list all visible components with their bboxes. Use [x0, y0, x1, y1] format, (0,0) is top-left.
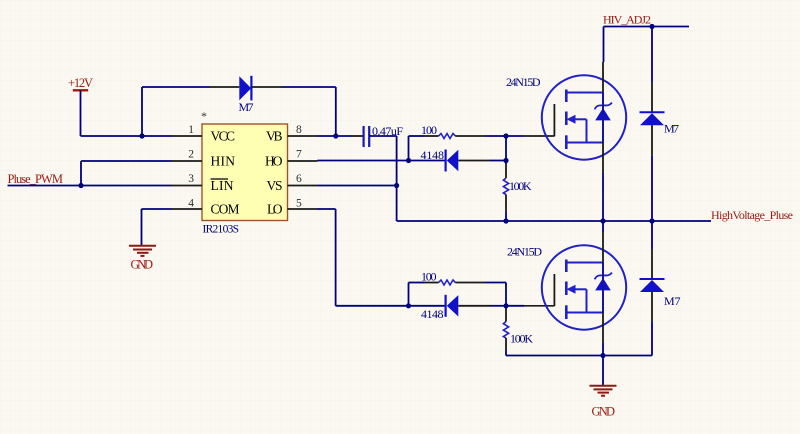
svg-text:Pluse_PWM: Pluse_PWM	[8, 172, 64, 186]
wire 100K to rail	[505, 195, 507, 213]
wire corner down bottom	[505, 283, 507, 306]
pin 1 VCC	[172, 124, 235, 144]
wire M7 right bottom upper	[651, 221, 653, 249]
node junction gate network bottom	[406, 303, 411, 308]
resistor R 100K top	[503, 178, 531, 195]
diode M7 top	[239, 76, 254, 114]
node junction 4148 bottom	[503, 303, 508, 308]
svg-text:GND: GND	[592, 404, 616, 418]
node junction VCC/M7 branch	[139, 133, 144, 138]
resistor R 100K bottom	[503, 322, 533, 346]
pin 5 LO	[267, 198, 318, 217]
svg-text:M7: M7	[239, 100, 254, 114]
pin drain Q2	[602, 232, 604, 263]
power port +12V	[68, 76, 93, 90]
svg-text:100: 100	[421, 270, 437, 284]
svg-text:+12V: +12V	[68, 76, 93, 90]
wire VB to cap	[318, 135, 353, 137]
svg-text:HighVoltage_Pluse: HighVoltage_Pluse	[711, 208, 793, 222]
wire HIN row	[81, 160, 172, 162]
svg-text:VCC: VCC	[211, 129, 236, 144]
svg-text:LO: LO	[267, 202, 283, 217]
wire M7 top right	[251, 86, 281, 88]
wire vertical to 100K bottom	[505, 306, 507, 309]
wire cap right	[369, 135, 396, 137]
node junction bottom rail	[600, 353, 605, 358]
pin 7 HO	[265, 149, 318, 169]
svg-text:3: 3	[188, 173, 194, 185]
node junction VS	[394, 183, 399, 188]
wire LIN row	[8, 185, 173, 187]
svg-text:M7: M7	[664, 121, 679, 135]
svg-text:VS: VS	[267, 178, 283, 193]
svg-text:M7: M7	[664, 294, 681, 308]
node junction HIN branch	[78, 183, 83, 188]
wire COM row	[142, 208, 173, 210]
svg-text:24N15D: 24N15D	[506, 75, 541, 89]
node junction gate top right	[503, 133, 508, 138]
svg-text:5: 5	[296, 198, 302, 210]
wire LO down	[335, 209, 337, 306]
wire HO row	[318, 160, 409, 162]
wire rail to Q2 drain	[602, 221, 604, 232]
svg-text:100K: 100K	[510, 332, 533, 346]
svg-text:*: *	[201, 109, 207, 123]
wire up to resistor branch	[408, 136, 410, 161]
node junction HIV/M7	[649, 24, 654, 29]
svg-text:8: 8	[296, 124, 302, 136]
svg-text:4148: 4148	[421, 307, 444, 321]
pin 6 VS	[267, 173, 318, 193]
svg-text:HIN: HIN	[211, 154, 236, 169]
op-amp U1 IR2103S body	[201, 109, 288, 236]
wire 100K bottom to rail	[505, 338, 507, 350]
wire HIN branch up	[80, 161, 82, 186]
pin 4 COM	[172, 198, 240, 217]
node junction gate network top	[406, 158, 411, 163]
wire Q1 source to rail	[602, 173, 604, 221]
svg-text:24N15D: 24N15D	[507, 245, 542, 259]
node junction rail M7	[649, 218, 654, 223]
capacitor C 0.47uF	[364, 124, 404, 147]
svg-text:4: 4	[188, 198, 194, 210]
wire LO to network	[336, 305, 409, 307]
node junction rail bridge	[600, 218, 605, 223]
wire M7 right bottom lower	[651, 292, 653, 322]
diode M7 right top	[640, 112, 680, 135]
wire +12V stem	[80, 90, 82, 136]
resistor R 100 top	[421, 123, 455, 139]
wire HighVoltage rail	[397, 220, 711, 222]
pin drain Q1	[602, 62, 604, 93]
wire 4148 right	[458, 160, 490, 162]
node junction rail 100K	[503, 218, 508, 223]
wire R100 bottom right	[455, 282, 485, 284]
svg-text:VB: VB	[266, 129, 283, 144]
wire Q2 source to bottom rail	[602, 343, 604, 356]
svg-text:1: 1	[188, 124, 194, 136]
svg-text:IR2103S: IR2103S	[203, 224, 240, 236]
pin gate Q1	[524, 135, 554, 137]
svg-text:4148: 4148	[421, 148, 445, 162]
wire 4148 bottom right	[458, 305, 490, 307]
wire M7 branch up	[141, 87, 143, 136]
ground GND left	[129, 246, 156, 271]
wire COM down	[141, 209, 143, 245]
node junction 4148/vertical	[503, 158, 508, 163]
pin 2 HIN	[172, 149, 235, 169]
wire LO row	[318, 208, 336, 210]
wire M7 top left	[142, 86, 210, 88]
wire VS row	[318, 185, 397, 187]
wire M7 right top upper	[651, 27, 653, 83]
diode D 4148 top	[421, 148, 459, 172]
svg-text:100K: 100K	[509, 179, 532, 193]
wire R100 to junction	[455, 135, 485, 137]
svg-text:100: 100	[421, 123, 437, 137]
pin source Q2	[602, 313, 604, 344]
wire HIV horizontal	[604, 26, 690, 28]
transistor Q2 24N15D	[507, 245, 626, 330]
wire 4148 left	[409, 160, 446, 162]
wire GND stem bottom	[602, 356, 604, 386]
svg-text:LIN: LIN	[211, 178, 234, 193]
wire M7 right top lower	[651, 125, 653, 155]
pin 8 VB	[266, 124, 318, 144]
node junction VB	[333, 133, 338, 138]
wire M7 branch down	[335, 87, 337, 136]
svg-text:GND: GND	[131, 257, 154, 271]
pin internal drain-source Q2	[602, 263, 604, 313]
pin 3 LIN	[172, 173, 234, 193]
svg-text:7: 7	[296, 149, 302, 161]
pin gate Q2	[524, 305, 554, 307]
transistor Q1 24N15D	[506, 75, 626, 160]
diode D 4148 bottom	[421, 295, 458, 321]
wire cap down to VS	[396, 136, 398, 221]
svg-text:HO: HO	[265, 154, 283, 169]
svg-text:6: 6	[296, 173, 302, 185]
resistor R 100 bottom	[421, 270, 455, 286]
wire up to resistor branch bottom	[408, 283, 410, 306]
wire bottom rail	[506, 355, 652, 357]
wire to R 100	[409, 135, 425, 137]
pin source Q1	[602, 143, 604, 174]
ground GND bottom	[590, 386, 617, 419]
svg-text:2: 2	[188, 149, 194, 161]
svg-text:HIV_ADJ2: HIV_ADJ2	[603, 13, 651, 27]
wire vertical to 100K	[505, 136, 507, 164]
wire gate bottom mosfet	[506, 305, 524, 307]
wire VCC row	[81, 135, 173, 137]
wire gate top mosfet	[506, 135, 524, 137]
pin internal drain-source Q1	[602, 93, 604, 143]
wire 4148 bottom left	[409, 305, 446, 307]
wire HIV vertical	[603, 27, 605, 63]
wire to R 100 bottom	[409, 282, 425, 284]
svg-text:COM: COM	[211, 202, 240, 217]
diode M7 right bottom	[640, 279, 681, 308]
